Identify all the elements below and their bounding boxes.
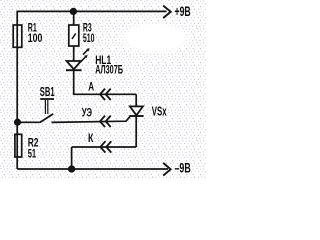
wire cathode line down to bottom rail: [71, 147, 73, 169]
label R1: [28, 21, 43, 46]
value slash inside R3: [72, 33, 76, 39]
label SB1: [40, 84, 55, 99]
label R3: [83, 21, 95, 46]
switch SB1 actuator stem: [45, 100, 47, 114]
thyristor VSx cathode bar: [129, 115, 143, 117]
arrow +9V: [163, 6, 171, 18]
label cathode K: [88, 131, 94, 145]
switch SB1 actuator bar: [40, 98, 54, 100]
LED light arrow 2: [81, 55, 88, 62]
svg-text:К: К: [88, 131, 94, 145]
wire top +9V rail: [17, 10, 166, 12]
wire LED to anode line: [74, 70, 137, 94]
svg-text:АЛ307Б: АЛ307Б: [95, 62, 123, 76]
LED HL1 cathode bar: [66, 69, 82, 71]
svg-text:VSx: VSx: [152, 104, 167, 119]
label VSx: [152, 104, 167, 119]
svg-text:100: 100: [28, 31, 43, 45]
svg-text:51: 51: [28, 147, 37, 161]
LED light arrow 1: [83, 48, 90, 55]
label gate UE: [82, 106, 92, 120]
svg-text:А: А: [88, 80, 94, 94]
wire bottom -9V rail: [17, 168, 168, 170]
label -9V: [175, 160, 191, 175]
node bottom junction: [69, 166, 75, 172]
wire cathode line: [72, 146, 137, 148]
wire R3 to LED: [73, 46, 75, 61]
wire gate diagonal to control line: [52, 116, 131, 122]
node top junction (R3 to +9V rail): [71, 9, 77, 15]
svg-text:–9В: –9В: [175, 160, 191, 175]
thyristor VSx triangle: [130, 106, 143, 115]
connector chevrons on anode line: [100, 89, 111, 100]
label +9V: [175, 4, 191, 19]
wire left vertical branch: [16, 11, 18, 169]
label anode A: [88, 80, 94, 94]
wire anode down to thyristor: [135, 94, 137, 106]
node SB1 junction on left branch: [15, 120, 20, 125]
label HL1: [95, 53, 123, 76]
LED HL1 triangle: [67, 61, 81, 69]
wire junction to SB1 contact: [18, 121, 40, 123]
arrow -9V: [163, 163, 170, 176]
wire thyristor cathode down: [135, 116, 137, 147]
resistor R1: [13, 25, 22, 47]
resistor R3: [69, 25, 79, 46]
svg-text:510: 510: [83, 31, 95, 45]
svg-text:УЭ: УЭ: [82, 106, 92, 120]
switch SB1 blade: [40, 114, 53, 123]
wire R3 top lead: [73, 11, 75, 25]
svg-text:+9В: +9В: [175, 4, 191, 19]
connector chevrons on cathode line: [100, 141, 111, 152]
resistor R2: [15, 134, 22, 157]
svg-text:SB1: SB1: [40, 84, 55, 99]
label R2: [28, 136, 39, 161]
connector chevrons on gate line: [100, 116, 111, 127]
